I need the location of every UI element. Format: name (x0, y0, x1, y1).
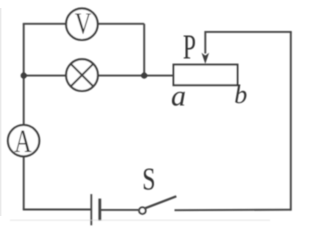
switch pivot circle (139, 207, 146, 214)
svg-text:A: A (14, 123, 32, 160)
scan artifact: faint bottom smudge (10, 220, 270, 222)
wire left vertical (23, 24, 25, 210)
voltmeter U circle (66, 8, 98, 40)
battery (short thick plate = negative) (98, 199, 101, 221)
wire top horizontal (voltmeter branch) (23, 23, 144, 25)
svg-text:S: S (142, 162, 155, 197)
ammeter circle (8, 125, 39, 156)
rheostat P box (174, 65, 238, 86)
wire wiper vertical (204, 31, 206, 54)
battery (long plate = positive) (90, 194, 92, 225)
wire switch to bottom right corner (175, 209, 291, 212)
svg-text:V: V (75, 6, 92, 40)
wiper arrowhead (202, 53, 210, 64)
wire right vertical (290, 32, 292, 211)
node left junction (21, 73, 27, 79)
wire right connector vertical (143, 24, 145, 76)
switch lever (145, 196, 176, 208)
wire top right horizontal (wiper feed) (205, 31, 291, 33)
lamp circle (66, 59, 98, 91)
svg-text:b: b (234, 80, 247, 109)
wire lamp branch horizontal (24, 75, 174, 77)
svg-text:a: a (171, 80, 186, 113)
wire bottom left (23, 209, 92, 211)
lamp cross (71, 64, 93, 86)
svg-text:P: P (183, 29, 196, 66)
scan artifact: faint left edge streak (0, 8, 1, 216)
node right junction (141, 73, 147, 79)
wire battery to switch (101, 209, 139, 211)
